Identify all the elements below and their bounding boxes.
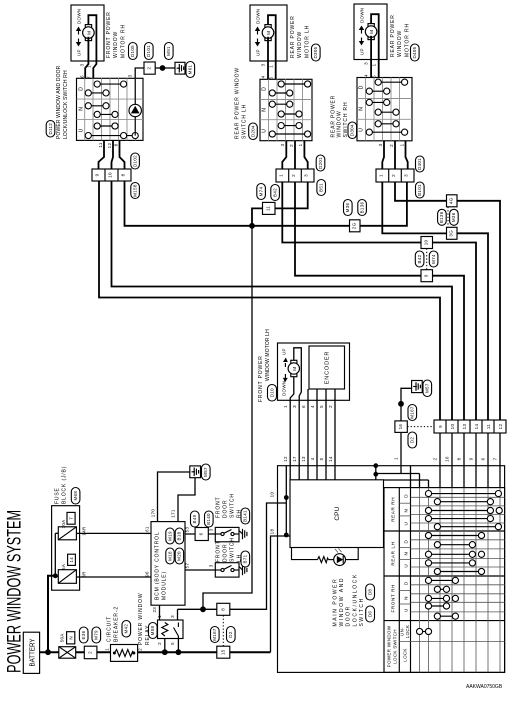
connector row 9 10 8 D102 M158	[92, 169, 131, 181]
front door switch RH	[215, 493, 247, 542]
connector pin box 4G	[447, 195, 458, 207]
svg-text:7: 7	[69, 517, 74, 520]
connector B49	[191, 511, 200, 527]
svg-text:1: 1	[394, 457, 399, 460]
svg-text:U: U	[404, 522, 409, 526]
svg-text:POWER WINDOW AND DOOR: POWER WINDOW AND DOOR	[56, 65, 62, 139]
matrix contacts power window lock switch	[417, 628, 432, 634]
svg-text:M79: M79	[94, 630, 99, 640]
svg-text:2: 2	[157, 642, 162, 645]
connector B140	[205, 511, 214, 527]
svg-text:3: 3	[378, 143, 383, 146]
svg-text:BCM (BODY CONTROL: BCM (BODY CONTROL	[155, 531, 161, 600]
wire BCM pin171 to ground	[178, 478, 195, 522]
connector M158	[131, 183, 140, 199]
power window and door lock/unlock switch RH	[46, 65, 143, 140]
svg-text:M61: M61	[188, 64, 193, 74]
svg-text:B101: B101	[417, 184, 422, 196]
ground M61	[175, 62, 195, 78]
wires motor and encoder pins to CPU	[290, 377, 294, 480]
svg-text:15: 15	[220, 649, 225, 655]
svg-text:U: U	[359, 127, 365, 131]
connector pin box 9	[421, 270, 433, 282]
svg-text:D405: D405	[412, 46, 417, 58]
svg-text:2: 2	[138, 648, 143, 651]
svg-text:N: N	[262, 107, 268, 111]
svg-text:M: M	[369, 29, 374, 33]
node ground splice	[160, 65, 166, 71]
svg-text:DOOR: DOOR	[346, 605, 352, 626]
connector row 1 2 3 D401 B101	[376, 169, 414, 182]
node pin10 entry	[284, 495, 289, 500]
svg-text:M: M	[266, 30, 271, 34]
svg-text:1: 1	[269, 65, 274, 68]
rear power window switch LH D204	[235, 67, 313, 141]
svg-text:9: 9	[438, 425, 443, 428]
front door switch LH	[215, 537, 249, 577]
connector B136	[358, 200, 367, 216]
svg-text:M158: M158	[132, 184, 137, 197]
svg-text:DOWN: DOWN	[256, 9, 261, 24]
connector pin box 11	[263, 202, 276, 214]
fuse 5A 14	[58, 554, 76, 583]
svg-text:D105: D105	[130, 45, 135, 57]
svg-text:3: 3	[404, 174, 409, 177]
svg-text:2: 2	[289, 144, 294, 147]
svg-text:SWITCH: SWITCH	[230, 493, 236, 518]
svg-text:DOOR: DOOR	[223, 500, 229, 518]
svg-text:3: 3	[364, 62, 369, 65]
svg-text:D6: D6	[367, 611, 372, 618]
svg-text:B141: B141	[243, 510, 248, 522]
wire BCM pin57 to front door switch LH	[185, 569, 215, 571]
svg-text:D: D	[359, 85, 365, 89]
svg-text:U: U	[262, 128, 268, 132]
connector D8	[366, 584, 375, 600]
svg-text:1: 1	[399, 143, 404, 146]
connector M79	[92, 627, 101, 643]
wire switch pin3 to ground M61	[135, 68, 144, 78]
svg-text:14: 14	[69, 557, 74, 563]
svg-text:3: 3	[128, 74, 133, 77]
ground M57 for main switch	[412, 380, 432, 397]
svg-text:CIRCUIT: CIRCUIT	[107, 616, 113, 642]
svg-text:2: 2	[391, 174, 396, 177]
svg-text:D: D	[79, 86, 85, 90]
wire motor RH to switch	[370, 36, 372, 78]
fuse 10A 7	[58, 512, 76, 539]
svg-text:1: 1	[278, 174, 283, 177]
node relay pin2 rail junction	[162, 649, 168, 655]
node ground branch	[398, 401, 404, 407]
svg-text:DOWN: DOWN	[77, 9, 82, 24]
svg-text:B49: B49	[192, 514, 197, 523]
svg-text:2: 2	[88, 651, 93, 654]
svg-text:B136: B136	[359, 201, 364, 213]
wires pin row into main switch	[439, 433, 441, 488]
ground M57 for BCM	[190, 464, 210, 480]
svg-text:D: D	[262, 86, 268, 90]
svg-text:M42: M42	[124, 624, 129, 634]
svg-text:D304: D304	[350, 124, 355, 136]
svg-text:14R: 14R	[82, 526, 87, 536]
svg-text:B42: B42	[272, 188, 277, 197]
wire battery to fusible link	[40, 651, 59, 653]
svg-text:B18: B18	[177, 531, 182, 540]
svg-text:170: 170	[151, 509, 156, 518]
svg-text:BLOCK (J/B): BLOCK (J/B)	[62, 466, 68, 504]
svg-text:UP: UP	[256, 49, 261, 56]
svg-text:16: 16	[398, 424, 403, 430]
wires switch RH to door connector	[382, 141, 384, 169]
svg-text:WINDOW: WINDOW	[297, 31, 303, 58]
connector D101	[145, 43, 154, 60]
wire relay pin5 to power rail	[177, 639, 179, 653]
svg-text:D204: D204	[250, 125, 255, 137]
svg-text:M68: M68	[73, 491, 78, 501]
svg-text:4G: 4G	[449, 197, 454, 204]
connector M167	[211, 627, 220, 643]
svg-text:AAKWA0750GB: AAKWA0750GB	[466, 684, 503, 690]
svg-text:B140: B140	[206, 513, 211, 525]
svg-text:M: M	[86, 30, 91, 34]
svg-text:DOOR: DOOR	[223, 544, 229, 562]
svg-text:FRONT: FRONT	[216, 541, 222, 562]
connector M36	[344, 200, 353, 216]
svg-text:8: 8	[121, 173, 126, 176]
illumination lamp	[134, 78, 136, 135]
wire box2 to ground	[155, 67, 175, 69]
svg-text:8: 8	[457, 457, 462, 460]
connector D2	[227, 627, 236, 643]
wire relay pin3 up to window power feed	[177, 609, 179, 620]
svg-text:WINDOW AND: WINDOW AND	[339, 577, 345, 627]
svg-text:14: 14	[328, 456, 333, 462]
svg-text:M57: M57	[425, 383, 430, 393]
connector pin box 3G	[447, 227, 458, 239]
svg-text:M91: M91	[166, 46, 171, 56]
connector B42 pair	[415, 251, 424, 267]
svg-text:5: 5	[319, 405, 324, 408]
svg-text:D: D	[404, 581, 409, 585]
svg-text:N: N	[404, 509, 409, 513]
node feed junction to body harness riser	[200, 606, 206, 612]
wire fusible link to circuit breaker	[76, 651, 111, 653]
connector D2 door side	[408, 432, 417, 448]
svg-text:MOTOR RH: MOTOR RH	[120, 24, 126, 58]
svg-text:LOCK: LOCK	[403, 648, 408, 661]
svg-text:10: 10	[270, 492, 275, 498]
wire rear RH pin3 to main switch pin11 via box3G	[382, 182, 446, 233]
svg-text:2: 2	[433, 457, 438, 460]
rear power window motor LH D305	[250, 5, 287, 61]
svg-text:2: 2	[389, 144, 394, 147]
svg-text:M19: M19	[167, 531, 172, 541]
svg-text:4: 4	[310, 405, 315, 408]
svg-text:REAR POWER: REAR POWER	[390, 14, 396, 57]
dashed connector link box8 to box15	[222, 615, 224, 646]
svg-text:8: 8	[220, 608, 225, 611]
connector D401	[416, 156, 425, 172]
svg-text:D2: D2	[410, 437, 415, 444]
svg-text:12: 12	[107, 143, 112, 149]
svg-text:REAR POWER: REAR POWER	[290, 15, 296, 58]
node pin18 entry	[284, 533, 289, 538]
svg-text:LOCK/UNLOCK SWITCH RH: LOCK/UNLOCK SWITCH RH	[63, 70, 69, 139]
wire relay pin2 to power rail	[164, 639, 166, 653]
svg-text:53: 53	[185, 527, 190, 533]
wire front RH pin10 to main switch pin16	[112, 181, 453, 420]
svg-text:D201: D201	[318, 157, 323, 169]
wire riser from feed junction to power bus node	[203, 226, 252, 610]
node battery junction	[45, 649, 51, 655]
svg-text:D102: D102	[132, 155, 137, 167]
svg-text:B51: B51	[319, 183, 324, 192]
svg-text:M74: M74	[431, 254, 436, 264]
wire rear RH pin2 to main switch pin12 via box4G	[395, 182, 447, 201]
svg-text:11: 11	[98, 142, 103, 147]
svg-text:6: 6	[199, 532, 204, 535]
svg-text:5: 5	[170, 642, 175, 645]
front power window motor RH	[71, 5, 104, 61]
connector D102	[131, 153, 140, 169]
svg-text:11: 11	[486, 424, 491, 429]
svg-text:4: 4	[310, 457, 315, 460]
fusible link N 50A	[59, 632, 76, 659]
svg-text:WINDOW: WINDOW	[397, 30, 403, 57]
switch matrix frame	[384, 488, 505, 673]
wire battery feed up to fuse block	[48, 576, 55, 652]
connector pin box 15 D2	[217, 646, 230, 658]
dashed connector link box16 to pin row	[407, 426, 434, 428]
svg-text:MOTOR LH: MOTOR LH	[304, 25, 310, 58]
svg-text:M36: M36	[451, 212, 456, 222]
svg-text:D2: D2	[228, 631, 233, 638]
svg-text:LOCK SWITCH: LOCK SWITCH	[393, 629, 398, 664]
connector B136 pair	[438, 209, 447, 225]
svg-text:N: N	[359, 106, 365, 110]
svg-text:M74: M74	[258, 186, 263, 196]
connector D305	[312, 44, 321, 61]
svg-text:9: 9	[469, 457, 474, 460]
svg-text:REAR POWER WINDOW: REAR POWER WINDOW	[235, 67, 241, 139]
svg-text:1: 1	[283, 405, 288, 408]
svg-text:D10: D10	[269, 388, 274, 397]
svg-text:M18: M18	[167, 551, 172, 561]
svg-text:WINDOW: WINDOW	[337, 110, 343, 137]
connector pin box 8 M167	[217, 603, 230, 615]
svg-text:12: 12	[498, 424, 503, 430]
wire main switch pin1 ground through box16	[400, 404, 402, 474]
internal feed to matrix and CPU top	[375, 466, 377, 480]
svg-text:FRONT POWER: FRONT POWER	[258, 355, 264, 402]
svg-text:FRONT POWER: FRONT POWER	[106, 11, 112, 58]
wire power rail to pin18 of main switch	[217, 651, 271, 653]
connector pin box 10	[421, 237, 433, 249]
connector pin box 2	[84, 646, 97, 659]
svg-text:11: 11	[266, 206, 271, 211]
svg-text:9: 9	[424, 274, 429, 277]
svg-text:D112: D112	[48, 123, 53, 135]
connector pin box 2	[144, 62, 155, 74]
wire fuse 5A to BCM pin96	[76, 576, 151, 578]
battery	[23, 632, 39, 673]
fuse block internal bus	[54, 533, 56, 576]
wire rear LH pin3 to main switch pin9 via box10	[282, 182, 421, 243]
wire front RH pin8 power bus	[125, 181, 253, 226]
power bus node	[249, 223, 255, 229]
svg-text:3: 3	[209, 564, 214, 567]
svg-text:13: 13	[462, 424, 467, 430]
svg-text:M57: M57	[203, 467, 208, 477]
svg-text:D101: D101	[146, 45, 151, 57]
svg-text:E36: E36	[81, 630, 86, 639]
front power window motor LH block D10	[258, 329, 350, 402]
svg-text:3: 3	[304, 174, 309, 177]
svg-text:2: 2	[147, 67, 152, 70]
connector M74	[257, 184, 266, 200]
svg-text:FRONT RH: FRONT RH	[391, 584, 396, 612]
svg-text:96: 96	[145, 571, 150, 577]
wire circuit breaker to relay area and power rail	[138, 651, 217, 653]
svg-text:4: 4	[364, 74, 369, 77]
connector B101	[416, 182, 425, 198]
power window relay M58	[138, 593, 183, 645]
svg-text:13: 13	[301, 456, 306, 462]
svg-text:U: U	[79, 128, 85, 132]
wire to ground M57	[401, 388, 412, 404]
connector pin row 9 10 13 14 11 12	[434, 420, 506, 433]
svg-text:UN-: UN-	[400, 627, 405, 636]
svg-text:N: N	[404, 552, 409, 556]
dashed link 4G 3G	[447, 207, 449, 228]
svg-text:N: N	[68, 636, 73, 640]
svg-text:POWER WINDOW: POWER WINDOW	[138, 593, 144, 645]
connector pin box 6	[195, 528, 208, 541]
wire relay pin3 window feed to pin10 of main switch	[178, 503, 287, 609]
wire front RH pin9 to main switch pin2	[99, 181, 440, 420]
svg-text:MAIN POWER: MAIN POWER	[333, 578, 339, 627]
svg-text:DOWN: DOWN	[282, 381, 287, 396]
svg-text:3: 3	[80, 63, 85, 66]
rear power window motor RH D405	[354, 4, 387, 60]
svg-text:161: 161	[145, 526, 150, 535]
connector pin box 16	[395, 421, 407, 433]
matrix contacts FRONT RH	[425, 577, 458, 619]
svg-text:3: 3	[209, 528, 214, 531]
matrix contacts REAR LH	[425, 532, 484, 574]
encoder	[309, 346, 345, 389]
svg-text:7: 7	[493, 457, 498, 460]
svg-text:MOTOR RH: MOTOR RH	[404, 23, 410, 57]
connector D405	[411, 44, 420, 61]
node fuse bus battery feed	[53, 573, 58, 578]
svg-text:U: U	[404, 564, 409, 568]
internal feed pin10 riser	[285, 466, 287, 536]
svg-text:M36: M36	[345, 202, 350, 212]
svg-text:10: 10	[450, 424, 455, 430]
svg-text:POWER WINDOW SYSTEM: POWER WINDOW SYSTEM	[4, 510, 26, 673]
wire fuse 10A to BCM pin161	[76, 532, 151, 534]
connector M167 door side	[408, 405, 417, 421]
connector D6	[366, 606, 375, 622]
connector B141	[241, 508, 250, 524]
svg-text:18: 18	[270, 529, 275, 535]
svg-text:5: 5	[319, 457, 324, 460]
svg-text:M: M	[292, 366, 297, 370]
svg-text:SWITCH: SWITCH	[359, 597, 365, 626]
svg-text:D401: D401	[417, 158, 422, 170]
wires switch LH to door connector	[282, 141, 286, 169]
svg-text:UP: UP	[77, 49, 82, 56]
svg-text:5A: 5A	[61, 564, 66, 570]
svg-text:REAR RH: REAR RH	[391, 497, 396, 522]
fuse block J/B M68	[52, 466, 80, 590]
svg-text:LOCK/UNLOCK: LOCK/UNLOCK	[352, 573, 358, 626]
svg-text:B136: B136	[439, 211, 444, 223]
wires switch RH to door connector	[99, 140, 105, 169]
svg-text:3: 3	[170, 615, 175, 618]
circuit breaker-2 M42	[104, 606, 142, 661]
power bus to rear RH switch	[252, 182, 407, 226]
svg-text:WINDOW MOTOR LH: WINDOW MOTOR LH	[265, 329, 271, 381]
svg-text:1: 1	[298, 143, 303, 146]
svg-text:BREAKER-2: BREAKER-2	[114, 606, 120, 642]
svg-text:1: 1	[378, 174, 383, 177]
svg-text:6: 6	[481, 457, 486, 460]
connector D105	[129, 43, 138, 60]
svg-text:6: 6	[80, 75, 85, 78]
svg-text:B71: B71	[243, 554, 248, 563]
svg-text:D: D	[404, 539, 409, 543]
node relay pin5 rail junction	[176, 649, 182, 655]
svg-text:14: 14	[474, 424, 479, 430]
rear power window switch RH D304	[330, 78, 412, 141]
svg-text:16: 16	[445, 456, 450, 462]
svg-text:10: 10	[108, 172, 113, 178]
power bus branch to rear LH switch via box11	[252, 208, 263, 225]
CPU	[290, 480, 384, 548]
svg-text:BATTERY: BATTERY	[30, 638, 37, 666]
connector B51	[317, 180, 326, 196]
svg-text:D8: D8	[367, 589, 372, 596]
svg-text:17: 17	[292, 456, 297, 462]
svg-text:FUSE: FUSE	[55, 487, 61, 504]
svg-text:3: 3	[280, 143, 285, 146]
svg-text:U: U	[404, 608, 409, 612]
svg-text:WINDOW: WINDOW	[113, 31, 119, 58]
dashed link box10 box9	[426, 249, 428, 270]
wire rear LH pin2 to main switch pin8 via box9	[295, 182, 421, 276]
svg-text:10: 10	[424, 240, 429, 246]
svg-text:FRONT: FRONT	[216, 497, 222, 518]
svg-text:23: 23	[152, 607, 157, 613]
svg-text:ENCODER: ENCODER	[325, 351, 331, 385]
svg-text:B42: B42	[417, 254, 422, 263]
connector row 1 2 3 D201 B51	[276, 169, 314, 182]
svg-text:3R: 3R	[82, 571, 87, 578]
svg-text:3: 3	[261, 63, 266, 66]
connector M91	[165, 43, 174, 60]
svg-text:1: 1	[104, 648, 109, 651]
svg-text:1: 1	[372, 63, 377, 66]
wire BCM pin53 to front door switch RH	[185, 533, 215, 535]
svg-text:3G: 3G	[449, 230, 454, 237]
svg-text:D305: D305	[313, 46, 318, 58]
svg-text:UP: UP	[282, 348, 287, 355]
connector B42	[271, 185, 280, 201]
svg-text:171: 171	[171, 509, 176, 518]
